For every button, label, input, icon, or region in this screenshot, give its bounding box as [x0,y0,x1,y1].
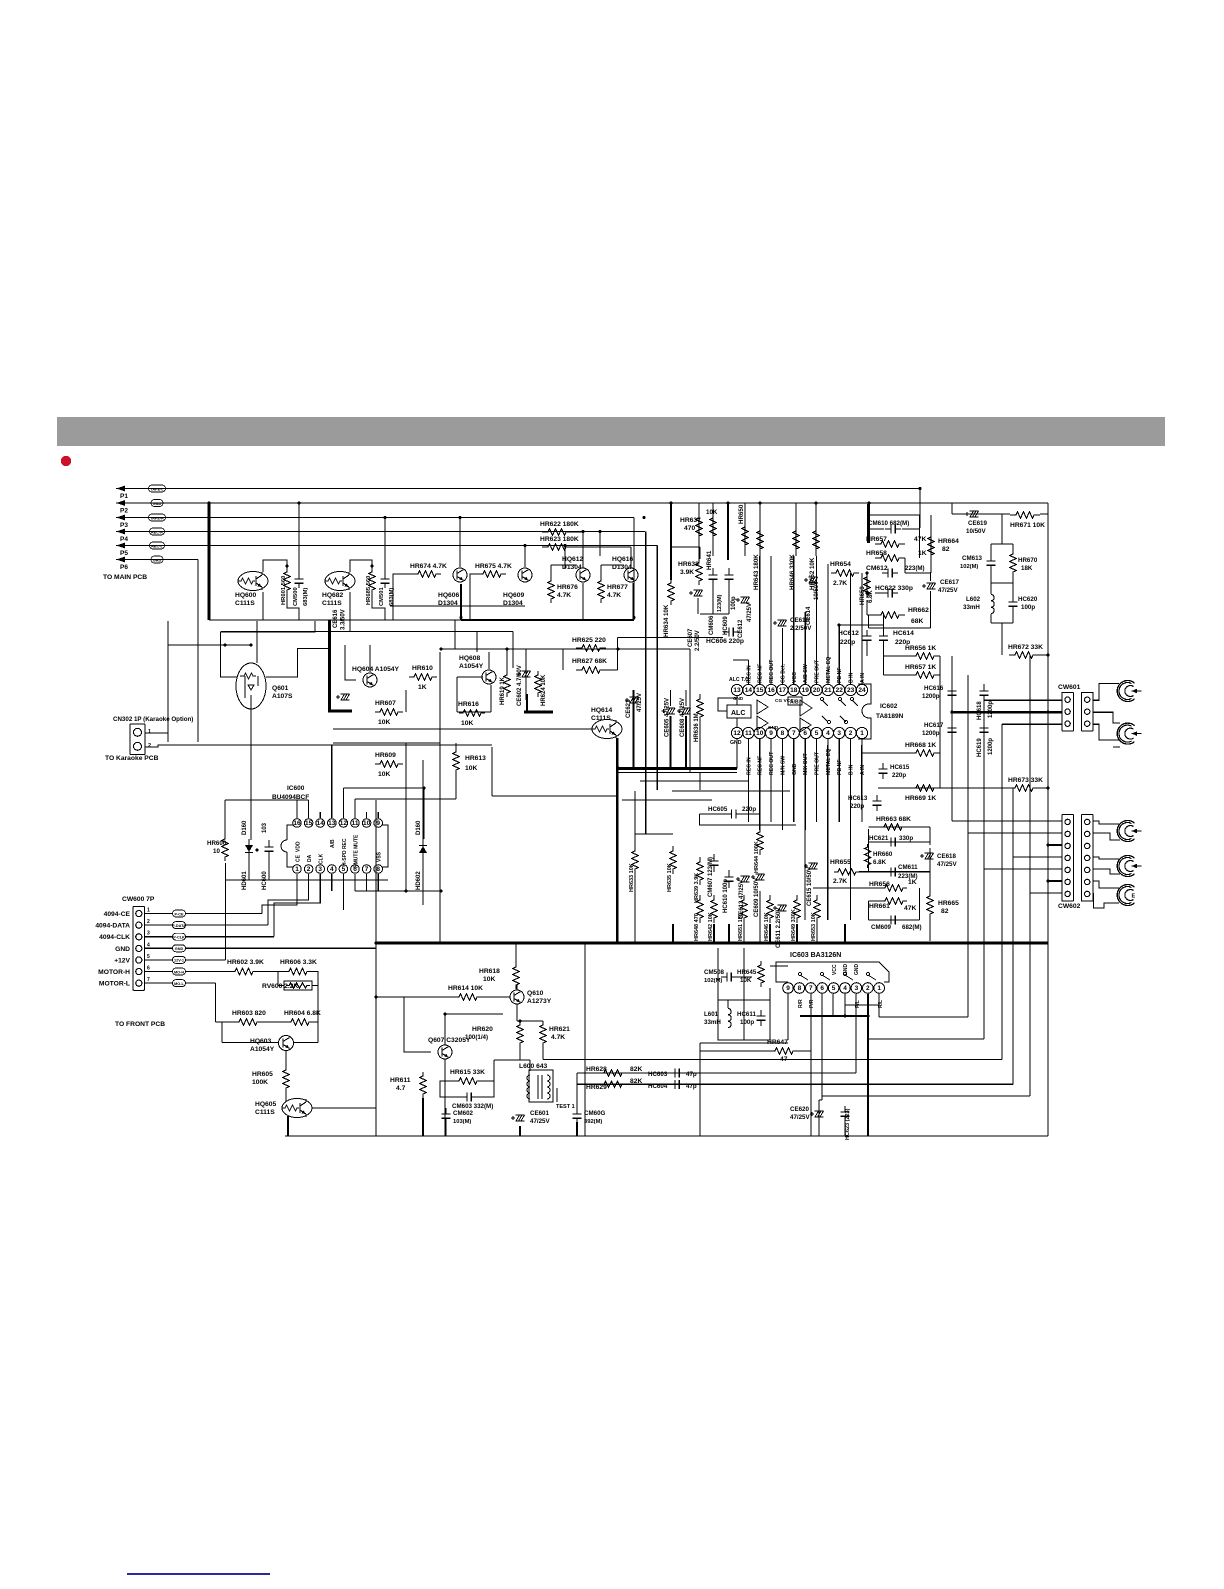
wire row 606 [390,605,525,607]
wire cw600 p4a [145,947,173,949]
wire cw602 p2 [968,832,1062,834]
wire hr659 lead [866,573,868,593]
svg-text:HR607: HR607 [375,700,396,707]
svg-text:METAL EQ: METAL EQ [826,749,832,775]
net oval REC-R [150,528,165,535]
svg-text:HC610 100p: HC610 100p [723,879,729,913]
svg-text:CM500: CM500 [293,587,299,606]
svg-text:HR602 3.9K: HR602 3.9K [227,959,264,966]
svg-text:HR671 10K: HR671 10K [1010,522,1045,529]
IC600 pin 3 [316,865,325,874]
wire stair h3 [822,1095,1030,1097]
wire hr607 rlead [405,690,407,712]
wire cm605 up [576,1073,578,1110]
wire hr609 rlead [405,743,407,764]
junction at 225,645 [223,643,226,646]
svg-text:HR648 470: HR648 470 [694,913,700,941]
wire cw600 p7a [145,982,173,984]
svg-text:9: 9 [786,985,790,992]
svg-text:VDD: VDD [296,841,302,852]
wire q610 path [516,985,518,990]
svg-text:47/25V: 47/25V [747,603,753,622]
svg-text:A IN: A IN [860,765,866,775]
svg-text:24: 24 [858,687,866,694]
IC600 pin 7 [362,865,371,874]
wire CM501 683(M) up [384,518,386,578]
IC602 pin 22 [834,684,845,695]
net oval P-CE [173,910,186,917]
svg-text:HR673 33K: HR673 33K [1008,777,1043,784]
resistor HR665 82 [927,894,933,916]
wire ic602 pin21 up [827,564,829,684]
capacitor CE621 hatch plus [625,698,629,702]
resistor HR615 33K [454,1078,482,1084]
wire ce602 top [525,649,527,668]
svg-text:392(M): 392(M) [584,1119,602,1125]
svg-text:HR609: HR609 [375,752,396,759]
wire stub 817 [816,923,818,943]
junction at 520,1021 [518,1019,521,1022]
wire ic600 top [225,799,309,801]
svg-text:HR629: HR629 [586,1084,607,1091]
wire ce602 stub [526,694,528,712]
wire x700 dn3 [699,773,701,791]
svg-text:P4: P4 [120,536,128,543]
wire box mid [718,999,770,1001]
wire CE621 bold [632,718,634,768]
svg-text:5: 5 [815,730,819,737]
resistor HR638 3.9K [696,559,702,585]
wire CM610 box bold [867,504,870,543]
resistor HR671 10K [1010,512,1040,518]
wire bus4 down [599,532,601,557]
wire hr673 left [878,787,1009,789]
svg-text:PRE OUT: PRE OUT [815,751,821,775]
junction at 869,503 [867,501,870,504]
svg-text:HC612: HC612 [838,630,859,637]
svg-text:1: 1 [148,729,151,735]
wire x930 a [929,827,931,845]
wire cw601 p2 bold [952,711,1062,714]
wire ic600 pin10 up [366,812,368,818]
wire collead 699b [698,542,700,559]
IC600 outline R [382,825,388,867]
svg-text:MO-L: MO-L [174,982,184,986]
svg-text:2.2/50V: 2.2/50V [695,630,701,651]
wire IC602 pin10 down [759,739,761,830]
wire bus GND [132,502,1048,504]
svg-text:HR653 10K: HR653 10K [811,912,817,941]
wire CE619 row [952,513,1010,515]
wire hc605 rv [759,800,761,814]
transistor HQ608 A1054Y [482,670,496,684]
jack J1 [1117,681,1141,702]
wire hd602 top [422,760,424,839]
wire trunk bottom [209,619,461,621]
wire cm610 boxtop [869,514,920,516]
resistor HR620 100 [517,1021,523,1047]
junction at 797,943 [795,941,798,944]
capacitor CE618 47/25V cl plus [920,854,924,858]
svg-text:MOTOR-L: MOTOR-L [99,981,130,988]
capacitor CE601 47/25V plus [511,1116,515,1120]
junction at 516,943 [514,941,517,944]
capacitor HC609 100p [725,568,734,586]
jack J3 [1117,820,1141,841]
wire hr655 row [859,871,930,873]
svg-text:47/25V: 47/25V [937,861,957,868]
svg-text:470: 470 [684,525,695,532]
junction at 920,488.5 [918,487,921,490]
resistor HR668 1K [910,750,940,756]
junction at 845,1016 [843,1014,846,1017]
connector CN302 [130,724,145,755]
transistor HQ609 D1304 [518,568,532,582]
wire clk [274,891,320,937]
wire ic602 dn 794 [793,745,795,800]
inductor L601 33mH [728,1008,731,1027]
svg-text:7: 7 [365,866,369,873]
junction at 585,943 [583,941,586,944]
resistor HR621 4.7K [540,1021,546,1047]
transistor HQ600 C111S [238,572,268,591]
IC602 pin 3 [834,727,845,738]
wire bus REC-R [132,531,645,533]
wire ic602 dn 850 [850,745,852,920]
capacitor HC615 220p [879,763,888,779]
wire hr627 r lead [606,669,618,671]
wire ic602 dn 839 [838,745,840,800]
wire cm602 [445,1124,447,1136]
wire q610 row [517,1020,543,1022]
wire ic603 p7 [810,994,812,1136]
svg-text:VCC: VCC [832,964,838,975]
wire bus GRD [132,559,198,561]
IC600 pin 8 [374,865,383,874]
wire cw600 p5a [145,959,173,961]
wire row 901b [869,900,881,902]
capacitor HC606 220p [723,628,739,637]
transistor HQ604 A1054Y [363,673,377,687]
junction at 257,850 [255,848,258,851]
svg-text:HR663 68K: HR663 68K [876,816,911,823]
svg-text:CE618: CE618 [790,617,809,624]
resistor HR637 470 [696,512,702,542]
inductor L602 box wire [991,544,1013,623]
junction at 445,1014 [443,1012,446,1015]
wire CN302 pin1 [145,732,168,734]
wire ic600 pin3 dn [319,874,321,900]
connector arrow P6 [116,557,132,563]
capacitor CE602 4.7/50V [525,668,527,700]
net oval REC-L [150,542,165,549]
svg-text:R/R: R/R [798,999,804,1008]
resistor HR656 1K [910,653,940,659]
svg-text:2.7K: 2.7K [833,878,847,885]
resistor HR648 470 [697,895,703,923]
resistor HR629 82K [600,1081,626,1087]
svg-text:4.7K: 4.7K [557,592,571,599]
resistor HR634 10K [668,579,674,605]
svg-text:HR657: HR657 [866,536,887,543]
capacitor HC612 220p [863,630,872,646]
svg-text:10K: 10K [483,976,495,983]
svg-text:6: 6 [803,730,807,737]
svg-text:HC615: HC615 [890,764,910,771]
svg-text:CW601: CW601 [1058,684,1081,691]
svg-text:HC620: HC620 [1018,596,1038,603]
resistor HR604 6.8K [287,1019,313,1025]
wire x919 a [919,888,921,920]
svg-text:10K: 10K [465,765,477,772]
wire cm610 boxbot [869,627,931,629]
junction at 1048,845 [1046,843,1049,846]
resistor HR647 47 [771,1048,797,1054]
svg-text:TAPE-R: TAPE-R [150,516,164,520]
svg-text:CW602: CW602 [1058,903,1081,910]
svg-text:47K: 47K [914,536,926,543]
resistor HR625 220 [576,645,606,651]
resistor HR641 10K [710,512,716,542]
wire hr615 r [477,1081,494,1097]
junction at 952,712.2 [950,711,953,714]
wire P6 down [197,560,199,743]
connector CW602 [1062,815,1074,902]
capacitor CM609 682(M) [885,916,901,925]
wire x318 link [317,1022,319,1043]
wire gnd row [186,947,377,949]
wire cm605 b [576,1122,578,1136]
svg-text:1K: 1K [908,879,917,886]
junction at 817,943 [815,941,818,944]
IC602 pin 8 [777,727,788,738]
junction at 673,943 [671,941,674,944]
svg-text:HQ600: HQ600 [235,592,256,599]
capacitor HC614b pass [879,630,888,646]
transistor Q610 A1273Y [510,990,524,1004]
wire collead x699 [698,503,700,556]
junction at 299,503 [297,501,300,504]
svg-text:HQ609: HQ609 [503,592,524,599]
svg-text:2: 2 [148,743,151,749]
wire row 888b [813,887,881,889]
transistor HQ614 C111S [592,720,622,739]
wire IC602 pin11 down [747,739,749,822]
capacitor CE620 47/25V [815,1111,824,1117]
junction at 1048,712.2 [1046,711,1049,714]
wire HR676 top [550,565,552,577]
capacitor CM606 123(M) [709,568,718,586]
junction at 385,517.5 [383,516,386,519]
svg-text:HR619 1K: HR619 1K [500,676,506,705]
wire hr602-606 [257,971,284,973]
svg-text:CM610 682(M): CM610 682(M) [868,520,909,527]
net oval P-CLK [173,933,186,940]
wire cw602 p3 [1048,844,1062,846]
wire x1030 f [1029,655,1031,893]
junction at 507,649 [505,647,508,650]
svg-text:TEST 1: TEST 1 [556,1104,575,1110]
IC602 pin 21 [822,684,833,695]
junction at 441,891 [439,889,442,892]
wire cm610 row [869,528,885,530]
svg-text:1: 1 [860,730,864,737]
svg-text:HR677: HR677 [607,584,628,591]
svg-text:1200p: 1200p [922,730,940,737]
resistor HR646b 10K [767,895,773,923]
wire pin14 link [733,659,748,661]
svg-text:682(M): 682(M) [902,924,922,931]
capacitor CE615 10/50V [809,863,818,869]
svg-text:D160: D160 [242,820,248,835]
junction at 440,943 [438,941,441,944]
red bullet [61,456,71,466]
resistor HR610 1K [409,674,437,680]
wire IC602 pin2 down [850,739,852,830]
net oval GND [151,500,163,507]
IC602 pin 19 [800,684,811,695]
wire hr614 l [376,996,453,998]
capacitor CE609 10/50V [756,874,765,880]
wire trunk bold [208,503,211,620]
wire hr645 row [770,965,788,967]
resistor HR659 6.8K [864,574,870,598]
wire cluster mid [635,833,673,835]
wire cw600 p6a [145,971,173,973]
wire hr647 row [700,1050,771,1052]
svg-text:47/25V: 47/25V [938,587,958,594]
capacitor CE612 47/25V plus [736,598,740,602]
svg-text:CM612: CM612 [866,565,888,572]
wire ic602 pin18 up [793,556,795,684]
net oval GRD [151,556,163,563]
wire j2 wire [1094,724,1119,740]
svg-text:HQ612: HQ612 [562,556,583,563]
wire hr626 right v [617,638,619,670]
svg-text:TO Karaoke PCB: TO Karaoke PCB [105,755,159,762]
capacitor CE620 47/25V plus [810,1112,814,1116]
svg-text:HR664: HR664 [938,538,959,545]
IC603 pin 9 [783,983,794,994]
wire right border [1047,503,1049,1136]
wire bold stub x797 [796,924,798,943]
svg-text:M/N SW: M/N SW [780,756,786,775]
svg-text:REC OUT: REC OUT [769,659,775,683]
wire l600 up [529,1060,531,1071]
wire hr638 tlead [699,547,701,559]
op-amp A2 [800,700,812,732]
capacitor HC618 1200p [980,684,989,702]
svg-text:HC611: HC611 [737,1011,756,1018]
wire x1002 e [1001,724,1003,881]
svg-text:CE621: CE621 [626,699,632,718]
IC600 pin 12 [339,819,348,828]
wire cw600 p2a [145,924,173,926]
IC600 pin 9 [374,819,383,828]
resistor HR619 1K [504,671,510,697]
svg-text:HR654: HR654 [830,561,851,568]
svg-text:GRD: GRD [153,558,162,562]
svg-text:13: 13 [328,820,336,827]
wire x376 down [375,943,377,1136]
capacitor HC610 100p [725,870,734,888]
junction at 714,943 [712,941,715,944]
wire ic603 p4 [844,994,846,1016]
svg-text:HR661: HR661 [869,903,890,910]
capacitor CE614 10/50V [809,577,818,583]
svg-text:B IN: B IN [849,672,855,683]
svg-text:10K: 10K [461,720,473,727]
svg-text:102(M): 102(M) [704,978,722,984]
svg-text:P1: P1 [120,493,128,500]
wire stair pin1 [878,994,880,1017]
connector CW602b [1081,815,1093,902]
svg-text:Q610: Q610 [527,990,544,997]
svg-text:HR669 1K: HR669 1K [905,795,936,802]
wire HR675 left [470,574,478,620]
svg-text:HR639 3.9K: HR639 3.9K [694,873,700,903]
wire ic602 pin20 up [816,556,818,684]
capacitor CM605 392(M) [573,1108,582,1124]
resistor HR627 68K [576,667,606,673]
wire ic600 riser11 [354,799,356,818]
jack J2 [1117,723,1141,744]
svg-text:6.8K: 6.8K [868,590,874,603]
resistor HR633 10K [632,846,638,874]
wire pin12 gnd dn [736,739,738,769]
svg-text:HR685 560: HR685 560 [366,576,372,605]
wire bold stub x673 [672,924,674,943]
wire L602 vert3 [990,614,992,623]
svg-text:102(M): 102(M) [960,564,978,570]
svg-text:11: 11 [745,730,752,737]
wire row 800 [622,799,712,801]
wire ic600 riser13 [331,745,333,818]
junction at 461,617.5 [459,616,462,619]
junction at 845,943 [843,941,846,944]
wire row 1100 [819,1099,822,1101]
capacitor CM612 223(M) [882,569,898,578]
wire hc605 r [741,813,760,815]
wire col bold 671b [670,560,672,580]
resistor HR685 560 [369,568,375,594]
svg-text:82K: 82K [630,1066,642,1073]
junction at 600,531.5 [598,530,601,533]
svg-text:1: 1 [147,908,150,914]
transistor HQ682 C111S [325,572,355,591]
wire x492 v [491,747,493,796]
IC602 pin 16 [766,684,777,695]
svg-text:18: 18 [790,687,798,694]
svg-text:GND: GND [115,946,130,953]
wire test1 stub [556,1088,558,1102]
wire HR622 rlead [572,531,583,533]
wire bold stub x770 [769,924,771,943]
wire bus5 down [564,546,566,569]
wire hr636 dn [699,722,701,769]
svg-text:Q607 C3205Y: Q607 C3205Y [428,1037,471,1044]
wire hc620 vert [1012,544,1014,549]
svg-text:HR615 33K: HR615 33K [450,1069,485,1076]
capacitor CE614 10/50V plus [804,578,808,582]
wire 318 drop [313,972,318,1023]
wire row 1043 [700,1042,788,1044]
junction at 728,503 [726,501,729,504]
svg-text:CM613: CM613 [962,555,983,562]
resistor HR611 4.7 [420,1072,426,1098]
svg-text:7: 7 [792,730,796,737]
svg-text:3: 3 [318,866,322,873]
